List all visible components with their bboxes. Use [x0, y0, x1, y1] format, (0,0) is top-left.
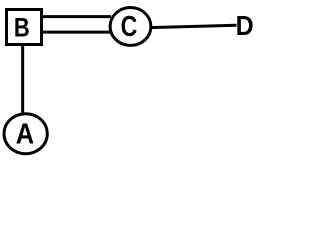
wire: B down to A: [21, 46, 24, 115]
node B box: [7, 10, 42, 45]
wire: lower parallel line B-C: [43, 31, 111, 34]
wire: C to D: [140, 25, 237, 28]
svg-text:C: C: [121, 10, 138, 43]
node C ellipse: [110, 8, 151, 46]
svg-text:A: A: [16, 117, 34, 150]
wire: upper parallel line B-C: [43, 15, 111, 18]
svg-text:B: B: [14, 13, 30, 43]
node A ellipse: [4, 114, 47, 154]
svg-text:D: D: [236, 9, 254, 41]
